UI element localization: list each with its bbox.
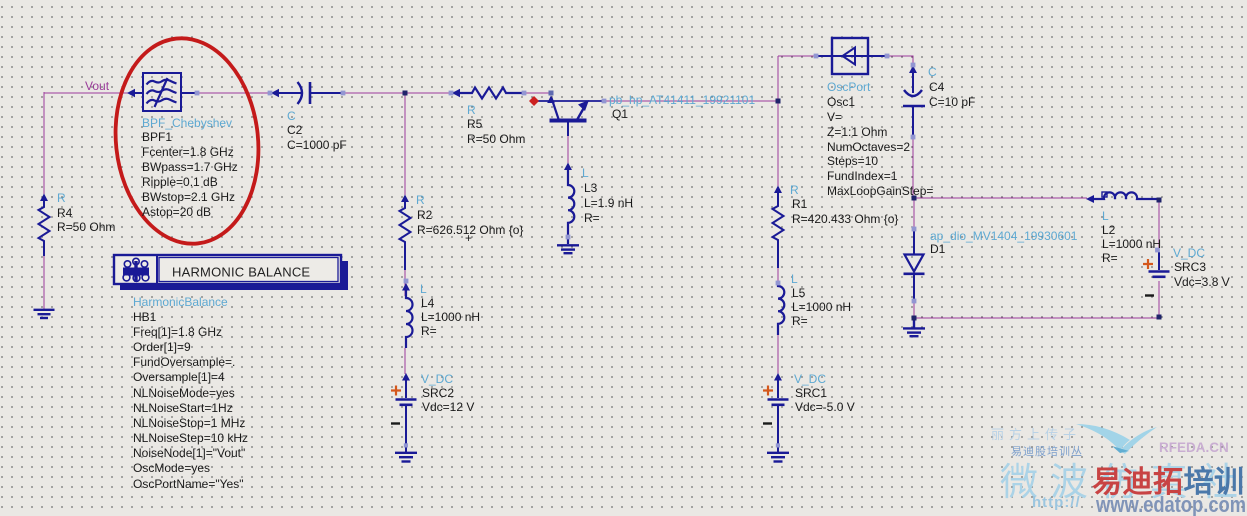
node bottom diode junction xyxy=(912,316,917,321)
svg-text:R=: R= xyxy=(584,211,600,225)
plus sign SRC2 xyxy=(391,386,401,396)
R1 labels xyxy=(790,183,898,226)
svg-text:L: L xyxy=(420,282,427,296)
svg-text:Osc1: Osc1 xyxy=(827,95,855,109)
svg-text:丽方上传子: 丽方上传子 xyxy=(991,427,1081,442)
svg-text:Vdc=-5.0 V: Vdc=-5.0 V xyxy=(795,400,855,414)
svg-text:C: C xyxy=(287,109,296,123)
wire L4 to SRC2 xyxy=(404,348,406,374)
inductor L3 xyxy=(564,163,574,245)
svg-text:NLNoiseStart=1Hz: NLNoiseStart=1Hz xyxy=(133,401,233,415)
svg-text:BWstop=2.1 GHz: BWstop=2.1 GHz xyxy=(142,190,235,204)
wire SRC3 to bottom corner xyxy=(1158,281,1160,318)
red circle annotation xyxy=(106,31,269,251)
transistor Q1 xyxy=(537,96,604,137)
svg-text:NumOctaves=2: NumOctaves=2 xyxy=(827,140,910,154)
svg-text:OscPort: OscPort xyxy=(827,80,871,94)
wire node A to R5 xyxy=(405,92,452,94)
svg-text:www.edatop.com: www.edatop.com xyxy=(1095,492,1246,516)
BPF bandpass filter BPF1 xyxy=(127,73,197,111)
diode D1 xyxy=(904,231,925,300)
watermark bird logo xyxy=(1076,424,1157,454)
svg-text:Astop=20 dB: Astop=20 dB xyxy=(142,205,211,219)
BPF1 labels xyxy=(142,116,238,219)
svg-text:C2: C2 xyxy=(287,123,303,137)
svg-text:R: R xyxy=(57,191,66,205)
capacitor C4 xyxy=(903,66,925,138)
resistor R5 xyxy=(452,88,524,99)
resistor R2 xyxy=(400,195,411,271)
wire R1 to L5 xyxy=(777,268,779,286)
svg-text:R=: R= xyxy=(1102,251,1118,265)
svg-text:Vout: Vout xyxy=(85,79,110,93)
ground under L3 xyxy=(557,245,579,253)
ground under D1 xyxy=(903,318,925,336)
svg-text:V=: V= xyxy=(827,110,842,124)
L2 labels xyxy=(1102,209,1161,265)
svg-text:http://: http:// xyxy=(1032,494,1081,511)
svg-text:SRC2: SRC2 xyxy=(422,386,454,400)
svg-text:L2: L2 xyxy=(1102,223,1116,237)
svg-text:Ripple=0.1 dB: Ripple=0.1 dB xyxy=(142,175,218,189)
SRC2 labels xyxy=(421,372,474,414)
L3 labels xyxy=(582,166,633,225)
wire L2 corner down to SRC3 xyxy=(1158,200,1160,251)
ground under R4 xyxy=(34,310,55,318)
svg-text:L=1.9 nH: L=1.9 nH xyxy=(584,196,633,210)
svg-text:HARMONIC BALANCE: HARMONIC BALANCE xyxy=(172,265,310,280)
wire bottom net xyxy=(914,317,1159,319)
svg-text:R: R xyxy=(416,193,425,207)
node L2 corner junction xyxy=(1157,198,1162,203)
svg-text:L: L xyxy=(582,166,589,180)
wire Q1 emitter to node B xyxy=(606,100,778,102)
svg-text:HarmonicBalance: HarmonicBalance xyxy=(133,295,228,309)
svg-text:C=10 pF: C=10 pF xyxy=(929,95,975,109)
wire D1 to bottom node xyxy=(913,300,915,318)
D1 labels xyxy=(930,229,1078,256)
svg-text:Vdc=12 V: Vdc=12 V xyxy=(422,400,474,414)
svg-text:SRC3: SRC3 xyxy=(1174,260,1206,274)
inductor L2 xyxy=(1086,192,1159,203)
node A junction xyxy=(403,91,408,96)
wire R4 to ground xyxy=(43,256,45,309)
svg-text:R4: R4 xyxy=(57,206,73,220)
svg-text:OscPortName="Yes": OscPortName="Yes" xyxy=(133,477,243,491)
C2 labels xyxy=(287,109,347,152)
svg-text:L=1000 nH: L=1000 nH xyxy=(792,300,851,314)
wire L5 to SRC1 xyxy=(777,335,779,374)
node B junction xyxy=(776,99,781,104)
dc source SRC3 battery xyxy=(1145,252,1170,296)
svg-text:FundOversample=.: FundOversample=. xyxy=(133,355,235,369)
SRC3 labels xyxy=(1173,246,1230,289)
plus sign SRC1 xyxy=(763,386,773,396)
svg-text:SRC1: SRC1 xyxy=(795,386,827,400)
HARMONIC BALANCE controller box xyxy=(114,255,348,290)
svg-text:Z=1:1 Ohm: Z=1:1 Ohm xyxy=(827,125,887,139)
wire OscPort pin2 to C4 corner xyxy=(888,56,913,66)
wire node B up to OscPort corner xyxy=(777,56,779,101)
L5 labels xyxy=(791,272,851,328)
svg-text:V_DC: V_DC xyxy=(421,372,453,386)
ground under SRC2 xyxy=(395,453,417,462)
svg-text:R: R xyxy=(467,103,476,117)
svg-text:R=50 Ohm: R=50 Ohm xyxy=(57,220,115,234)
svg-text:R2: R2 xyxy=(417,208,433,222)
svg-text:BPF_Chebyshev: BPF_Chebyshev xyxy=(142,116,232,130)
node C junction xyxy=(912,196,917,201)
svg-text:R=50 Ohm: R=50 Ohm xyxy=(467,132,525,146)
svg-text:NLNoiseStop=1 MHz: NLNoiseStop=1 MHz xyxy=(133,416,245,430)
svg-text:C4: C4 xyxy=(929,80,945,94)
resistor R4 xyxy=(39,194,50,257)
plus sign SRC3 xyxy=(1143,259,1153,269)
node Q1 collector junction xyxy=(549,91,554,96)
OscPort Osc1 xyxy=(817,38,886,74)
svg-text:NoiseNode[1]="Vout": NoiseNode[1]="Vout" xyxy=(133,446,245,460)
svg-text:BPF1: BPF1 xyxy=(142,130,172,144)
capacitor C2 xyxy=(271,82,342,104)
svg-text:Fcenter=1.8 GHz: Fcenter=1.8 GHz xyxy=(142,145,234,159)
svg-text:NLNoiseStep=10 kHz: NLNoiseStep=10 kHz xyxy=(133,431,248,445)
wire Vout vertical to R4 xyxy=(43,92,45,195)
R4 labels xyxy=(57,191,115,234)
svg-text:pb_hp_AT41411_19921101: pb_hp_AT41411_19921101 xyxy=(609,93,755,107)
svg-text:L: L xyxy=(791,272,798,286)
svg-text:R5: R5 xyxy=(467,117,483,131)
svg-text:R: R xyxy=(790,183,799,197)
node bottom right corner junction xyxy=(1157,315,1162,320)
svg-text:Oversample[1]=4: Oversample[1]=4 xyxy=(133,370,225,384)
svg-text:HB1: HB1 xyxy=(133,310,157,324)
dc source SRC1 battery xyxy=(763,373,789,452)
C4 labels xyxy=(928,65,975,109)
svg-text:R=: R= xyxy=(421,324,437,338)
svg-text:MaxLoopGainStep=: MaxLoopGainStep= xyxy=(827,184,933,198)
R2 labels xyxy=(416,193,523,245)
svg-text:L=1000 nH: L=1000 nH xyxy=(1102,237,1161,251)
wire R5 to Q1 collector node xyxy=(524,92,550,94)
SRC1 labels xyxy=(794,372,855,414)
pin squares xyxy=(195,54,1160,448)
OscPort labels xyxy=(827,80,933,198)
svg-text:R=: R= xyxy=(792,314,808,328)
svg-text:V_DC: V_DC xyxy=(794,372,826,386)
svg-text:Steps=10: Steps=10 xyxy=(827,154,878,168)
wire Vout net horizontal xyxy=(44,92,129,94)
svg-text:易迪股培训丛: 易迪股培训丛 xyxy=(1011,444,1083,458)
svg-text:R=420.433 Ohm {o}: R=420.433 Ohm {o} xyxy=(792,212,898,226)
svg-text:C=1000 pF: C=1000 pF xyxy=(287,138,347,152)
svg-text:OscMode=yes: OscMode=yes xyxy=(133,461,210,475)
svg-text:RFEDA.CN: RFEDA.CN xyxy=(1159,440,1229,455)
R5 labels xyxy=(467,103,525,146)
svg-text:L4: L4 xyxy=(421,296,435,310)
inductor L4 xyxy=(402,283,413,348)
svg-text:V_DC: V_DC xyxy=(1173,246,1205,260)
svg-text:NLNoiseMode=yes: NLNoiseMode=yes xyxy=(133,386,235,400)
wire BPF to C2 xyxy=(198,92,271,94)
wire node C to L2 xyxy=(913,197,1087,199)
svg-text:ap_dio_MV1404_19930601: ap_dio_MV1404_19930601 xyxy=(930,229,1078,243)
inductor L5 xyxy=(778,284,784,335)
Q1 labels xyxy=(609,93,755,121)
wire node C down to D1 xyxy=(913,198,915,230)
svg-text:L3: L3 xyxy=(584,181,598,195)
svg-text:L5: L5 xyxy=(792,286,806,300)
HarmonicBalance labels xyxy=(133,295,248,491)
svg-text:D1: D1 xyxy=(930,242,946,256)
red diamond pin marker Q1 xyxy=(529,96,539,106)
dc source SRC2 battery xyxy=(391,373,417,452)
svg-text:+: + xyxy=(465,231,472,245)
wire corner to OscPort pin1 xyxy=(778,55,816,57)
wire C2 to node A xyxy=(343,92,405,94)
svg-text:Q1: Q1 xyxy=(612,107,628,121)
L4 labels xyxy=(420,282,480,338)
wire C4 to node C xyxy=(912,137,914,198)
wire Q1 base to L3 xyxy=(567,135,569,164)
svg-text:BWpass=1.7 GHz: BWpass=1.7 GHz xyxy=(142,160,238,174)
resistor R1 xyxy=(773,186,784,269)
svg-text:Freq[1]=1.8 GHz: Freq[1]=1.8 GHz xyxy=(133,325,222,339)
svg-text:Vdc=3.8 V: Vdc=3.8 V xyxy=(1174,275,1230,289)
wire node B down to R1 xyxy=(777,101,779,187)
svg-text:R1: R1 xyxy=(792,197,808,211)
wire R2 to L4 xyxy=(404,270,406,296)
wire node A down to R2 xyxy=(404,93,406,195)
svg-text:L=1000 nH: L=1000 nH xyxy=(421,310,480,324)
svg-text:FundIndex=1: FundIndex=1 xyxy=(827,169,898,183)
svg-text:L: L xyxy=(1102,209,1109,223)
svg-text:Order[1]=9: Order[1]=9 xyxy=(133,340,191,354)
svg-text:C: C xyxy=(928,65,937,79)
ground under SRC1 xyxy=(767,453,789,462)
